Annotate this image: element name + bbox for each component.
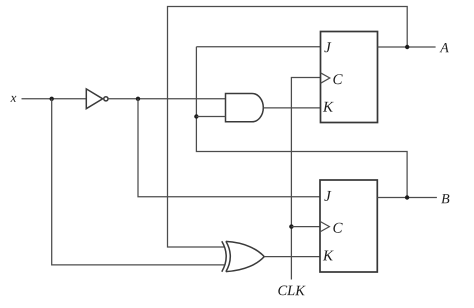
svg-text:CLK: CLK: [277, 283, 306, 299]
junction x' branch: [136, 97, 140, 101]
svg-text:B: B: [441, 192, 450, 207]
inverter G1: [86, 89, 108, 109]
svg-text:x: x: [10, 90, 17, 105]
wire A feedback loop: A node up, across top, down to XOR top input: [168, 7, 408, 248]
junction CLK branch: [289, 224, 293, 228]
wire x branch down to XOR bottom input: [52, 99, 225, 265]
wire AND output to FF1 K input: [263, 107, 320, 109]
XOR gate G3: [222, 241, 264, 271]
wire x' branch down to FF2 J input: [138, 99, 320, 197]
svg-text:C: C: [332, 72, 343, 88]
wire CLK branch to FF2 C input: [291, 226, 320, 228]
svg-text:C: C: [332, 221, 343, 237]
svg-text:K: K: [322, 248, 334, 264]
wire XOR output to FF2 K input: [264, 256, 320, 258]
flip-flop FF2 (B) box: [320, 180, 377, 272]
junction x branch: [50, 97, 54, 101]
svg-text:J: J: [324, 189, 332, 205]
svg-text:K: K: [322, 100, 334, 116]
flip-flop FF1 (A) box: [321, 32, 378, 123]
wire B feedback: down left side and across to B node: [196, 47, 407, 198]
wire FF1 output to A: [378, 46, 436, 48]
junction node B: [405, 195, 409, 199]
wire FF2 output to B: [377, 197, 437, 199]
junction B feedback to AND input 2: [194, 114, 198, 118]
wire AND input 2: [196, 116, 225, 118]
FF2 clock triangle: [320, 221, 329, 232]
junction node A: [405, 45, 409, 49]
FF1 clock triangle: [321, 73, 330, 84]
wire x input to inverter: [22, 98, 87, 100]
wire inverter output to AND input 1: [108, 98, 225, 100]
AND gate G2: [226, 94, 264, 122]
wire CLK vertical and to FF1 C input: [291, 78, 320, 280]
svg-text:A: A: [439, 41, 449, 56]
svg-text:J: J: [324, 40, 332, 56]
wire B feedback: FF1 J input line: [196, 46, 320, 48]
